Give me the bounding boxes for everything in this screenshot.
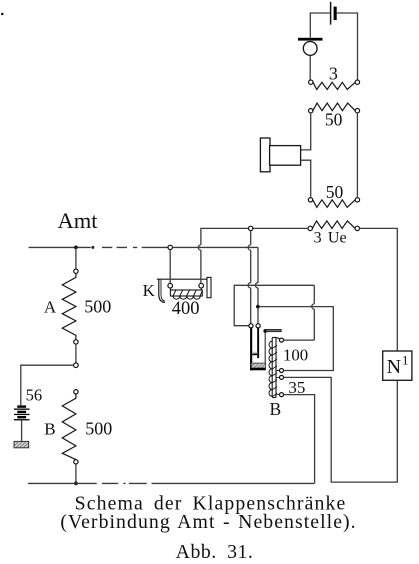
tap2 wire to junction dot bbox=[260, 307, 334, 371]
junction dot A branch bbox=[74, 246, 78, 250]
wire main line end down to jack (right) bbox=[255, 247, 258, 323]
junction dot on that wire bbox=[256, 305, 260, 309]
svg-text:100: 100 bbox=[283, 345, 308, 364]
main line right part bbox=[172, 246, 258, 248]
svg-text:400: 400 bbox=[172, 299, 200, 319]
wire B to bottom bus bbox=[75, 464, 77, 483]
plug conductor bars bbox=[250, 328, 252, 370]
B coil tap circles bbox=[280, 338, 284, 342]
B coil loops bbox=[269, 341, 272, 396]
svg-text:B: B bbox=[269, 399, 281, 419]
svg-text:50: 50 bbox=[326, 182, 344, 202]
wire 3Ue left line to corner bbox=[201, 228, 308, 245]
svg-text:50: 50 bbox=[325, 109, 343, 129]
resistor 50 upper bbox=[313, 103, 355, 111]
svg-text:B: B bbox=[44, 420, 55, 439]
bottom bus line bbox=[28, 482, 315, 484]
svg-text:500: 500 bbox=[85, 419, 112, 439]
B coil core bbox=[272, 337, 276, 397]
svg-text:56: 56 bbox=[26, 386, 43, 405]
resistor B 500 bbox=[74, 390, 78, 394]
main Amt bus line bbox=[29, 246, 168, 248]
wire upper-50 to plug bbox=[301, 113, 311, 150]
wire plug to lower-50 bbox=[301, 160, 311, 197]
armature dot and bar bbox=[263, 329, 267, 333]
stray dot top-left bbox=[1, 13, 3, 15]
K coil terminals bbox=[168, 283, 173, 288]
wire right side of 50 loop bbox=[356, 113, 358, 198]
junction dot bottom bus bbox=[74, 482, 78, 486]
wire to junction circle bbox=[75, 344, 77, 363]
tap3 wire to N1 bottom bbox=[284, 377, 398, 482]
svg-text:Ue: Ue bbox=[328, 229, 347, 246]
tap1 wire bbox=[284, 339, 315, 341]
vertical from connector down to tap1 (hops tap2 line) bbox=[312, 285, 315, 340]
junction node circle bbox=[74, 363, 79, 368]
microphone bbox=[298, 38, 323, 41]
N1 box bbox=[383, 351, 412, 380]
wire battery top loop bbox=[310, 13, 357, 80]
jack sleeve cup bbox=[251, 363, 265, 368]
svg-text:3: 3 bbox=[314, 229, 322, 246]
battery 56 bbox=[14, 405, 30, 420]
contact ledge bbox=[252, 352, 257, 354]
connector horizontal + left jack feed bbox=[234, 285, 314, 325]
svg-text:3: 3 bbox=[329, 63, 338, 83]
wire A branch bbox=[75, 247, 77, 269]
K relay frame bbox=[157, 279, 207, 303]
svg-text:500: 500 bbox=[84, 297, 111, 317]
wire 3Ue right to N1 bbox=[360, 228, 398, 351]
svg-text:1: 1 bbox=[402, 353, 409, 368]
node circle on 3Ue line bbox=[249, 226, 253, 230]
resistor 3 bbox=[313, 82, 355, 89]
svg-text:(Verbindung Amt - Nebenstelle): (Verbindung Amt - Nebenstelle). bbox=[60, 511, 356, 533]
svg-text:Abb. 31.: Abb. 31. bbox=[176, 541, 254, 563]
svg-text:A: A bbox=[44, 298, 57, 317]
svg-text:N: N bbox=[387, 356, 401, 378]
node circle on main line bbox=[168, 245, 172, 249]
wire to battery 56 bbox=[21, 365, 74, 405]
battery (top cell) bbox=[330, 2, 332, 25]
resistor 3 Ue bbox=[312, 221, 355, 229]
resistor 50 lower bbox=[313, 200, 356, 208]
svg-text:K: K bbox=[143, 281, 156, 300]
resistor A 500 bbox=[62, 273, 76, 339]
wire 3Ue node down to jack (left), hops main line and connector bbox=[248, 231, 251, 324]
wire main line circle down to K bbox=[169, 250, 171, 284]
svg-text:Amt: Amt bbox=[58, 208, 99, 233]
wire battery to ground bbox=[21, 420, 23, 441]
plug (Stoepsel) bbox=[260, 138, 270, 172]
jack contact circles bbox=[249, 324, 253, 328]
wire 3Ue corner down to K (hops main line) bbox=[198, 245, 201, 284]
K coil bbox=[170, 290, 202, 296]
tap4 wire to bottom bus bbox=[284, 395, 315, 484]
earth ground bbox=[14, 441, 29, 447]
